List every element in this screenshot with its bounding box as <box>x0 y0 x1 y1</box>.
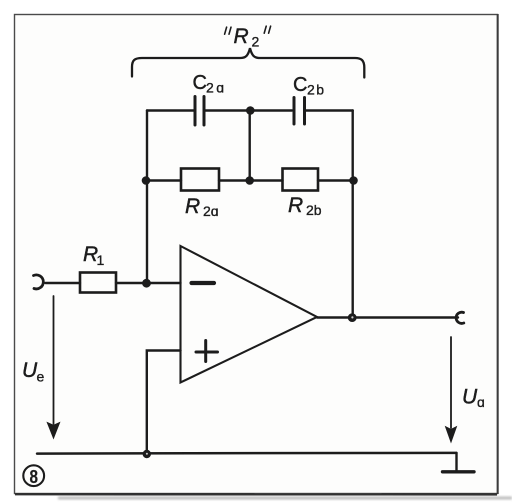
ground <box>443 453 475 472</box>
junction: output node <box>348 313 357 322</box>
svg-text:R: R <box>234 25 249 48</box>
capacitor C2a <box>193 72 227 125</box>
label Ue <box>22 359 45 385</box>
svg-text:2b: 2b <box>306 202 322 218</box>
wire: left dot to R2a <box>146 179 181 181</box>
junction: capacitor midpoint <box>246 106 255 115</box>
net label "R2" <box>225 25 271 50</box>
op-amp U1 <box>181 246 318 383</box>
voltage arrow Ua <box>445 337 458 444</box>
junction: resistor row left <box>142 176 151 185</box>
label Ua <box>462 386 485 411</box>
figure number 8 <box>23 465 44 486</box>
brace over feedback network <box>132 48 364 77</box>
svg-text:2ɑ: 2ɑ <box>206 80 227 96</box>
svg-text:U: U <box>462 386 478 409</box>
output terminal <box>456 312 464 323</box>
wire: op-amp output to terminal <box>317 316 458 318</box>
svg-text:e: e <box>37 369 45 385</box>
wire: R1 to input junction <box>116 282 147 284</box>
scan shadow under bottom border <box>58 497 512 500</box>
wire: left feedback rail <box>146 111 148 284</box>
junction: inverting input node <box>142 279 151 288</box>
wire: ground rail <box>37 452 457 455</box>
junction: resistor row center <box>245 176 254 185</box>
wire: center drop between capacitor row and resistor row <box>248 111 250 181</box>
wire: C2a to node, node to C2b <box>206 109 293 111</box>
wire: R2b to right dot <box>318 179 354 181</box>
svg-text:2ɑ: 2ɑ <box>203 203 219 219</box>
svg-text:2: 2 <box>252 34 260 50</box>
junction: resistor row right <box>349 176 358 185</box>
wire: left rail to C2a <box>147 109 194 111</box>
wire: C2b to right rail <box>306 109 353 111</box>
wire: op-amp non-inverting input <box>147 351 181 454</box>
wire: R2a to center dot to R2b <box>219 179 283 181</box>
wire: right feedback rail <box>352 111 354 318</box>
voltage arrow Ue <box>46 296 60 440</box>
svg-text:ɑ: ɑ <box>477 394 485 410</box>
wire: junction to op-amp inverting input <box>147 282 181 284</box>
resistor R2b <box>283 169 322 219</box>
svg-text:R: R <box>288 194 303 217</box>
svg-text:8: 8 <box>30 466 39 487</box>
input terminal <box>34 275 44 289</box>
junction: ground rail node <box>143 450 151 458</box>
capacitor C2b <box>293 74 326 124</box>
svg-text:2b: 2b <box>307 82 326 98</box>
svg-text:C: C <box>293 74 307 96</box>
svg-text:R: R <box>185 195 200 218</box>
wire: input terminal to R1 <box>46 282 81 284</box>
svg-text:C: C <box>193 72 207 94</box>
resistor R2a <box>181 169 219 220</box>
svg-text:1: 1 <box>97 252 105 268</box>
resistor R1 <box>80 243 116 293</box>
